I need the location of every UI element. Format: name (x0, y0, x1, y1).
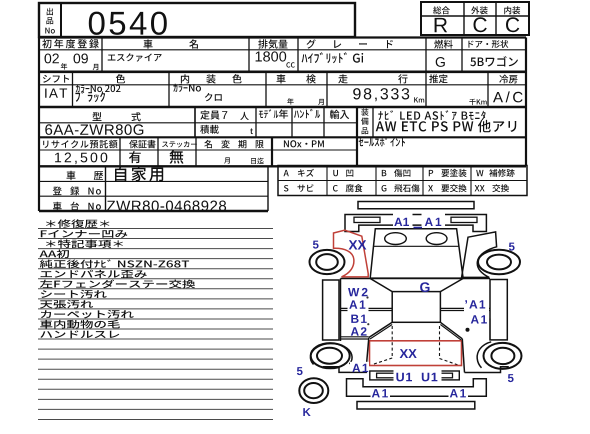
value 有 (129, 151, 141, 163)
band3 mid line (39, 122, 357, 124)
dash between A1s (414, 227, 423, 229)
unit 年 (287, 98, 293, 105)
unit 年 (61, 63, 67, 70)
left rear seam (341, 336, 369, 338)
remark ハンドルスレ (40, 331, 119, 339)
label No (45, 28, 55, 34)
header モデル年 (259, 109, 288, 118)
remark カーペット汚れ (41, 310, 134, 319)
header 内装色 spread (181, 74, 189, 83)
cowl line (341, 278, 491, 280)
headlight panel line (374, 245, 459, 247)
header 排気量 (258, 39, 287, 49)
legend A キズ (284, 170, 289, 176)
recycle fee 12,500 (55, 153, 107, 165)
unit Km (414, 97, 424, 102)
interior クロ (205, 93, 222, 101)
exterior grade C (474, 17, 487, 32)
band1 verticals (101, 38, 103, 72)
left rear pillar (369, 322, 392, 337)
left door seam (341, 307, 393, 309)
fuel G (436, 57, 445, 67)
right headlight (426, 233, 447, 245)
body 5Bワゴン (470, 56, 518, 66)
remark AA初 (40, 250, 70, 259)
right quarter bottom hook (465, 367, 509, 373)
legend S サビ (284, 185, 289, 192)
equipment line2 (376, 120, 517, 132)
right door seam (440, 307, 490, 309)
legend C 腐食 (333, 185, 338, 192)
header 車 (144, 39, 153, 48)
header グレード spread (307, 39, 316, 48)
label A1 front bumper L (394, 218, 409, 226)
aircon A/C (493, 91, 523, 102)
header 内装 (504, 6, 520, 14)
remarks ruled lines (38, 228, 273, 230)
rear bumper (347, 379, 487, 397)
interior color no (173, 84, 201, 92)
unit 人 (240, 112, 249, 120)
rear lower strip (357, 402, 475, 410)
header 走行 (338, 74, 347, 83)
main table outer border (39, 36, 526, 38)
header 積載 (200, 125, 219, 134)
header 定員 (200, 110, 219, 119)
header NOx・PM (284, 140, 324, 147)
label XX rear red box (400, 349, 417, 358)
label 品 (46, 17, 53, 24)
remark 左Fフェンダーステー交換 (40, 280, 195, 289)
header 車歴 (67, 171, 76, 180)
band3 verticals (194, 107, 196, 137)
header 車台No (53, 202, 101, 211)
front right wheel (478, 250, 520, 274)
value 09 (74, 54, 88, 64)
band4 verticals (119, 137, 121, 166)
label A1 rear-left quarter (352, 364, 368, 372)
grade ハイブリッド Gi (302, 52, 364, 63)
header 初年度登録 (42, 39, 99, 48)
right front fender (462, 232, 497, 278)
label U1 tailgate left (396, 373, 412, 382)
remark 天張汚れ (40, 300, 93, 309)
remark エンドパネル歪み (41, 270, 147, 278)
band2 verticals (72, 72, 74, 107)
spare tire (299, 378, 328, 403)
equipment line1 (378, 110, 485, 120)
front bumper left inset (354, 217, 380, 222)
unit 千Km (469, 99, 486, 105)
label G roof (420, 282, 429, 292)
header 総合 (433, 6, 450, 14)
remark ＊修復歴＊ (46, 219, 109, 228)
history 自家用 (115, 167, 163, 182)
front bumper right inset (451, 217, 477, 222)
header 推定 (429, 74, 447, 83)
label U1 tailgate right (422, 373, 438, 382)
capacity 7 (222, 111, 227, 119)
label A1 rear bumper R (450, 389, 466, 397)
label セールスポイント (359, 137, 405, 146)
rear wheel arches (310, 344, 352, 365)
label W2 left side (348, 288, 368, 296)
value 無 (170, 150, 184, 164)
header 色 (116, 74, 125, 83)
label A2 left side (351, 327, 367, 335)
label K spare tire (303, 408, 310, 416)
legend P 要塗装 (429, 170, 433, 176)
interior grade C (506, 17, 519, 32)
rear window dashed (391, 326, 393, 358)
label 5 rear-right wheel (508, 374, 514, 382)
label 出 (47, 8, 53, 15)
label 5 front-left wheel (313, 241, 319, 249)
right side lower edge (489, 319, 491, 340)
legend G 飛石傷 (382, 185, 387, 192)
label 5 front-right wheel (509, 243, 515, 251)
header ステッカー (162, 141, 197, 147)
unit 月 (318, 99, 324, 105)
label XX left fender (349, 240, 367, 249)
label apostrophe-A1 right side (465, 300, 485, 308)
legend U 凹 (333, 170, 338, 176)
header シフト (43, 75, 69, 83)
label B1 left side (351, 315, 366, 323)
unit 月 (224, 157, 230, 163)
rear damage red box (370, 341, 462, 366)
left quarter bottom hook (323, 366, 366, 372)
label A1 left side (349, 300, 365, 308)
unit CC (286, 62, 294, 67)
dot right side (466, 328, 470, 332)
band4 header line (39, 149, 357, 151)
band5 rows (left) (267, 166, 269, 211)
header 名変期限 (204, 140, 263, 148)
roof (392, 292, 440, 323)
tailgate garnish (370, 371, 460, 380)
remark 純正後付ﾅﾋﾞ NSZN-Z68T (40, 259, 189, 268)
remark シート汚れ (41, 290, 107, 299)
legend box (278, 166, 527, 196)
front left wheel (310, 250, 345, 274)
label A1 front bumper R (425, 218, 442, 226)
color ブラック (75, 91, 105, 103)
header ドア・形状 (468, 40, 508, 48)
shift IAT (45, 89, 67, 98)
car name エスクァイア (108, 53, 162, 61)
header ハンドル (294, 109, 320, 118)
label 装備品 vertical (361, 108, 368, 115)
front bumper (345, 215, 486, 232)
label 5 rear-left wheel (297, 367, 303, 375)
legend X 要交換 (428, 185, 433, 191)
right rear pillar (440, 322, 462, 339)
unit 日迄 (251, 158, 264, 164)
chassis no ZWR80-0468928 (107, 201, 226, 212)
hood panel (370, 229, 463, 278)
color no 202 (76, 85, 121, 93)
value 02 (45, 54, 59, 64)
header 外装 (471, 6, 488, 14)
left A-pillar (370, 279, 392, 292)
white halos behind damage labels (393, 212, 413, 227)
header 保証書 (129, 140, 155, 148)
left quarter edge (366, 338, 369, 368)
lot number 0540 (89, 12, 167, 35)
legend XX 交換 (475, 185, 485, 191)
band1 header line (39, 49, 526, 51)
left front fender (red, replaced) (334, 230, 369, 277)
unit t (250, 128, 253, 134)
band2 header line (39, 84, 526, 86)
header 名 (189, 39, 198, 48)
front upper strip (358, 202, 474, 209)
right sill strip (490, 280, 507, 340)
label A1 rear bumper L (372, 389, 388, 397)
header リサイクル預託額 (43, 140, 117, 148)
right quarter edge (462, 339, 464, 373)
header 輸入 (330, 110, 349, 119)
remark 車内動物の毛 (40, 320, 120, 329)
legend W 補修跡 (476, 170, 483, 176)
right A-pillar (440, 279, 463, 292)
lot number box (39, 3, 355, 37)
model code 6AA-ZWR80G (45, 124, 143, 135)
grading box (421, 2, 529, 35)
left sill strip (323, 280, 339, 340)
header 型式 (93, 112, 102, 121)
displacement 1800 (256, 51, 287, 61)
label A1 right side 2 (471, 315, 487, 323)
rear right wheel (484, 343, 522, 369)
header 登録No (53, 187, 101, 196)
mileage 98,333 (353, 88, 409, 101)
band separators (39, 71, 526, 74)
header 車検 (277, 74, 286, 83)
left side panel edge (340, 279, 342, 342)
legend B 傷凹 (382, 170, 387, 176)
unit 月 (93, 64, 99, 70)
dot after B1 (367, 323, 369, 325)
dot after W2 (366, 296, 368, 298)
remark Fインナー凹み (41, 230, 128, 238)
remark ＊特記事項＊ (46, 239, 123, 248)
rear left wheel (311, 343, 350, 368)
header 冷房 (499, 75, 517, 84)
overall grade R (435, 18, 448, 32)
left headlight (385, 233, 407, 245)
header 燃料 (434, 40, 452, 49)
